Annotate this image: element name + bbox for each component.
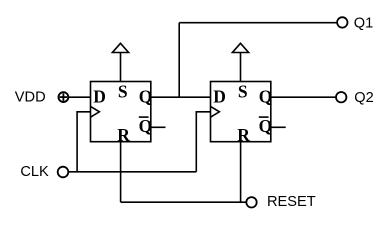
U2 set stub wire: [240, 53, 242, 82]
svg-text:RESET: RESET: [267, 194, 316, 210]
wire RESET horizontal run: [121, 201, 247, 203]
CLK terminal circle: [58, 167, 69, 178]
flip-flop U1 body: [91, 82, 151, 142]
U2 Qbar stub wire: [271, 126, 286, 128]
svg-text:D: D: [93, 87, 106, 107]
svg-text:CLK: CLK: [20, 164, 49, 180]
Q2 terminal circle: [336, 92, 346, 102]
svg-text:Q: Q: [259, 87, 273, 107]
svg-text:Q: Q: [139, 87, 153, 107]
wire CLK riser to U1 clock: [77, 112, 90, 172]
wire CLK horizontal run: [69, 171, 197, 173]
wire VDD to U1 D: [69, 96, 91, 98]
VDD terminal (circle with plus): [59, 92, 69, 102]
svg-text:Q: Q: [259, 116, 273, 136]
U1 set stub wire: [120, 53, 122, 82]
wire U1 R drop: [120, 142, 122, 203]
svg-text:D: D: [213, 87, 226, 107]
svg-text:VDD: VDD: [15, 90, 46, 106]
RESET terminal circle: [246, 197, 256, 207]
wire U2 Q to Q2 terminal: [271, 96, 336, 98]
wire U2 R drop: [240, 142, 242, 203]
U1 Qbar overbar: [139, 116, 149, 118]
U1 clock input triangle: [91, 106, 100, 117]
svg-text:Q: Q: [139, 116, 153, 136]
U2 clock input triangle: [211, 106, 220, 117]
wire node Q1 riser: [178, 23, 180, 98]
svg-text:S: S: [118, 82, 128, 102]
svg-text:Q1: Q1: [354, 15, 373, 31]
svg-text:Q2: Q2: [354, 90, 373, 106]
svg-text:R: R: [117, 125, 130, 145]
U2 set arrow (tied high): [232, 43, 248, 52]
Q1 terminal circle: [337, 17, 347, 27]
svg-text:S: S: [238, 82, 248, 102]
U2 Qbar overbar: [259, 116, 269, 118]
flip-flop U2 body: [211, 82, 271, 142]
U1 Qbar stub wire: [151, 126, 166, 128]
svg-text:R: R: [237, 125, 250, 145]
U1 set arrow (tied high): [112, 43, 128, 52]
wire Q1 top run: [179, 22, 336, 24]
wire U1 Q to U2 D: [151, 96, 211, 98]
wire CLK riser to U2 clock: [196, 112, 210, 172]
